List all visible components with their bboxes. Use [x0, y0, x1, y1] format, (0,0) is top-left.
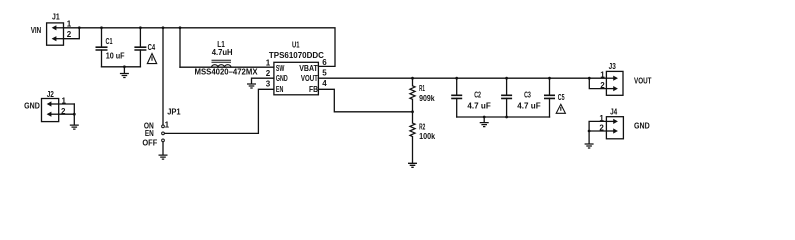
svg-text:VOUT: VOUT — [634, 76, 652, 85]
svg-text:2: 2 — [61, 107, 66, 116]
svg-text:VIN: VIN — [31, 26, 42, 35]
svg-text:J3: J3 — [609, 62, 617, 71]
svg-text:OFF: OFF — [142, 139, 157, 148]
svg-text:SW: SW — [276, 64, 285, 73]
svg-text:4: 4 — [322, 79, 327, 88]
svg-text:FB: FB — [309, 85, 318, 94]
svg-text:JP1: JP1 — [167, 108, 181, 117]
svg-text:5: 5 — [322, 69, 327, 78]
svg-text:MSS4020–472MX: MSS4020–472MX — [195, 68, 259, 77]
svg-text:C5: C5 — [558, 93, 565, 102]
svg-text:J2: J2 — [47, 90, 55, 99]
svg-text:4.7 uF: 4.7 uF — [517, 102, 541, 111]
svg-text:1: 1 — [600, 70, 605, 79]
svg-text:GND: GND — [24, 102, 40, 111]
svg-text:2: 2 — [266, 69, 271, 78]
svg-text:1: 1 — [67, 20, 72, 29]
svg-text:4.7 uF: 4.7 uF — [467, 102, 491, 111]
svg-text:U1: U1 — [292, 40, 300, 49]
svg-text:1: 1 — [599, 114, 604, 123]
svg-text:C2: C2 — [474, 90, 481, 99]
svg-text:6: 6 — [322, 58, 327, 67]
svg-text:VOUT: VOUT — [301, 74, 318, 83]
svg-text:1: 1 — [165, 121, 170, 130]
svg-text:C1: C1 — [106, 37, 113, 46]
svg-text:1: 1 — [266, 59, 271, 68]
svg-text:TPS61070DDC: TPS61070DDC — [269, 51, 324, 60]
svg-text:J4: J4 — [610, 107, 618, 116]
svg-text:GND: GND — [634, 122, 650, 131]
svg-text:EN: EN — [145, 129, 154, 138]
svg-text:R1: R1 — [419, 84, 425, 93]
svg-text:C3: C3 — [524, 90, 531, 99]
svg-text:2: 2 — [600, 81, 605, 90]
svg-text:J1: J1 — [52, 12, 60, 21]
svg-text:100k: 100k — [419, 132, 435, 141]
svg-text:R2: R2 — [419, 123, 426, 132]
svg-text:3: 3 — [266, 80, 271, 89]
svg-text:10 uF: 10 uF — [106, 52, 125, 61]
svg-text:2: 2 — [599, 124, 604, 133]
svg-text:1: 1 — [62, 97, 67, 106]
svg-text:2: 2 — [67, 30, 72, 39]
svg-text:GND: GND — [276, 74, 288, 83]
svg-text:VBAT: VBAT — [299, 64, 318, 73]
svg-text:909k: 909k — [419, 94, 435, 103]
svg-text:4.7uH: 4.7uH — [212, 48, 233, 57]
svg-text:C4: C4 — [148, 43, 156, 52]
svg-text:EN: EN — [276, 85, 284, 94]
